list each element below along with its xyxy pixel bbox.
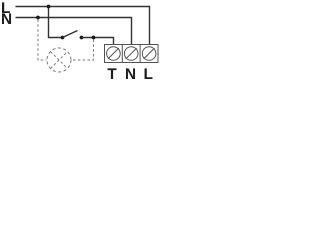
load M1 cross diagonal 2 — [51, 52, 68, 69]
load M1 (dashed circle, external device) — [47, 48, 71, 72]
label L — [145, 68, 153, 79]
terminal T screw — [107, 47, 121, 61]
wire: drop from L junction down and right to switch — [49, 7, 63, 38]
terminal T screw slot — [108, 48, 119, 59]
load M1 cross diagonal 1 — [51, 52, 68, 69]
terminal N screw — [124, 47, 138, 61]
label T — [107, 68, 116, 79]
node L (supply line label) — [2, 2, 10, 13]
background — [0, 0, 160, 81]
junction on L line — [47, 5, 51, 9]
terminal L screw — [142, 47, 156, 61]
label N — [126, 68, 135, 79]
terminal block divider 2 — [139, 45, 141, 63]
wire: switched line to corner, down to terminal T — [82, 38, 114, 45]
wire L: from label right to corner, down to terminal L — [16, 7, 150, 45]
switch S1 blade (open) — [63, 31, 78, 38]
wire (dashed): N junction down to load — [38, 20, 47, 61]
terminal block outline — [105, 45, 159, 63]
terminal L screw slot — [144, 48, 155, 59]
terminal block divider 1 — [121, 45, 123, 63]
switch S1 left contact — [61, 36, 65, 40]
switch S1 right contact — [80, 36, 84, 40]
wire (dashed): switched junction down to load — [72, 40, 94, 61]
wire N: from label right to corner, down to terminal N — [16, 18, 132, 45]
junction on switched line — [92, 36, 96, 40]
node N (supply line label) — [2, 13, 11, 24]
terminal N screw slot — [126, 48, 137, 59]
junction on N line — [36, 16, 40, 20]
